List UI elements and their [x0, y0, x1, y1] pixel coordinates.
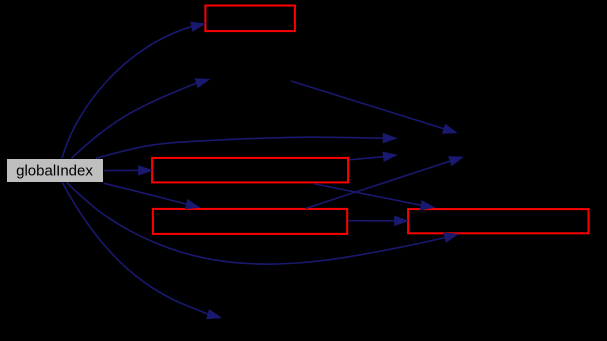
arrowhead E2 globalIndex->N1 — [195, 78, 211, 88]
edge E4 globalIndex->N2 upper — [96, 137, 383, 158]
arrowhead EP box2->box4 top — [420, 200, 436, 210]
edge E3 N1->N3 upper — [291, 81, 444, 129]
arrowhead E4 globalIndex->N2 upper — [383, 133, 398, 144]
edge E6 globalIndex->box2 — [104, 169, 138, 171]
arrowhead E3 N1->N3 upper — [442, 124, 458, 134]
node box2 (middle truncated node, red outline) — [152, 158, 348, 183]
svg-text:globalIndex: globalIndex — [16, 163, 93, 180]
edge E2 globalIndex->N1 — [72, 83, 197, 158]
node box3 (lower truncated node, red outline) — [153, 209, 347, 234]
edge E1 globalIndex->boxA — [62, 27, 191, 159]
arrowhead EQ box3->N3 lower — [448, 156, 464, 166]
edge EP box2->box4 top — [314, 184, 421, 206]
node box4 (right truncated node, red outline) — [408, 209, 588, 233]
edge E11 box3->box4 left — [348, 220, 394, 222]
edge E5 box2->N2 lower — [349, 157, 383, 160]
node boxA (top truncated node, red outline) — [205, 6, 295, 32]
edge EQ box3->N3 lower — [306, 161, 450, 208]
edge E7 globalIndex->box3 top — [104, 183, 186, 204]
edge E9 globalIndex->bottom node — [62, 183, 207, 315]
arrowhead E1 globalIndex->boxA — [190, 22, 206, 32]
arrowhead E6 globalIndex->box2 — [138, 165, 153, 176]
node globalIndex (current node, grey box) — [7, 159, 104, 183]
arrowhead E11 box3->box4 left — [394, 216, 409, 227]
arrowhead E7 globalIndex->box3 top — [185, 199, 201, 209]
edge E8 globalIndex->box4 bottom — [67, 183, 445, 264]
arrowhead E5 box2->N2 lower — [382, 152, 398, 163]
arrowhead E8 globalIndex->box4 bottom — [443, 233, 459, 243]
arrowhead E9 globalIndex->bottom node — [206, 309, 222, 319]
